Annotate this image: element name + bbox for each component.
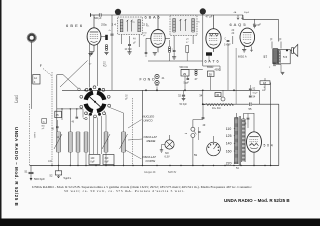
contact circle right bbox=[82, 109, 84, 118]
arrow down at 251.5 bbox=[250, 47, 252, 52]
svg-text:5µpF∧: 5µpF∧ bbox=[64, 176, 72, 180]
ground bbox=[242, 49, 246, 51]
wire stub x112 bbox=[111, 15, 113, 26]
tube V3 diode plates bbox=[210, 34, 219, 37]
power transformer T4 primary bbox=[234, 118, 236, 165]
svg-text:47 µF: 47 µF bbox=[206, 14, 213, 18]
resistor R11 box 30 bbox=[208, 71, 215, 77]
wire x203 lower bbox=[202, 90, 204, 104]
wire L1 bottom lead bbox=[58, 152, 60, 166]
svg-text:220: 220 bbox=[226, 161, 232, 165]
trimmer cap 46 bbox=[61, 109, 63, 120]
svg-text:F·: F· bbox=[34, 81, 36, 84]
contact circle left bbox=[78, 88, 81, 91]
power transformer T4 secondary bbox=[241, 119, 243, 162]
dashed gang line right bbox=[132, 98, 134, 165]
ground bbox=[90, 51, 94, 53]
capacitor C8 under T2 bbox=[173, 50, 176, 52]
leader nucleo bbox=[128, 120, 142, 129]
wire antenna lead bbox=[31, 42, 33, 84]
svg-text:500 KpF: 500 KpF bbox=[34, 177, 45, 181]
svg-text:5µpF: 5µpF bbox=[184, 82, 190, 85]
svg-text:110: 110 bbox=[226, 127, 232, 131]
wires F leads bbox=[271, 42, 273, 49]
wire T3 primary bottom lead with cap bbox=[273, 63, 275, 64]
svg-text:F: F bbox=[40, 64, 42, 68]
ground bbox=[172, 56, 176, 58]
wire vertical feed to output transformer bbox=[277, 19, 279, 41]
svg-text:140: 140 bbox=[226, 142, 232, 146]
wire AVC bus bbox=[62, 89, 260, 91]
coil L5 bbox=[103, 132, 105, 152]
svg-text:50 KpF: 50 KpF bbox=[180, 104, 188, 106]
wire V2 top lead bbox=[157, 15, 159, 29]
svg-text:“c”: “c” bbox=[89, 62, 92, 66]
FONO jack lower bbox=[155, 81, 159, 85]
ground bbox=[153, 52, 157, 54]
leader corte bbox=[126, 150, 142, 159]
power transformer T4 core bbox=[238, 116, 240, 165]
trimmer box 4s left bbox=[42, 119, 47, 124]
wire main bottom bus bbox=[30, 165, 279, 167]
tube V3 6AT6 plate bbox=[209, 32, 218, 34]
wire V2 left grid lead bbox=[146, 37, 151, 39]
wire V1 grid leads to switch bbox=[89, 44, 91, 88]
IF transformer T2 dashed can bbox=[170, 15, 197, 35]
tube V1 6BE6 plate bbox=[90, 31, 99, 33]
wire feed left bbox=[57, 74, 63, 76]
tube V2 6BA6 envelope bbox=[151, 30, 165, 48]
wires switch bottom drops bbox=[89, 116, 91, 154]
wire V1 plate lead bbox=[101, 36, 106, 38]
svg-text:5 6: 5 6 bbox=[283, 55, 288, 59]
svg-text:CORTE: CORTE bbox=[146, 159, 156, 163]
arrows 4A 50uF hanging from bus bbox=[237, 15, 244, 20]
wire V2 plate lead bbox=[165, 37, 170, 39]
svg-text:5 X 4: 5 X 4 bbox=[264, 144, 273, 148]
tube V4 6AQ5 envelope bbox=[240, 28, 255, 46]
padder box 140KpF bbox=[89, 155, 100, 165]
junction dot on bus at x118 bbox=[115, 9, 121, 15]
wires T2 down leads bbox=[173, 36, 175, 51]
capacitor C13 32 bbox=[183, 90, 185, 94]
svg-text:KpF: KpF bbox=[105, 162, 110, 164]
wire vertical to V4 grid cap bbox=[254, 19, 256, 24]
tube V2 6BA6 cathode bbox=[154, 43, 161, 44]
capacitor C6 V2 grid bbox=[145, 52, 148, 54]
wire V4 area down bbox=[235, 48, 237, 104]
trimmer T1 arrows bbox=[126, 20, 128, 32]
tube V2 6BA6 grids bbox=[154, 35, 163, 37]
wire antenna to coil bank bbox=[31, 84, 33, 109]
band switch S1 ring bbox=[97, 104, 104, 111]
wire V1 cathode lead bbox=[93, 45, 95, 51]
wire top B+ bus bbox=[91, 14, 99, 16]
coil L1 bbox=[56, 132, 58, 152]
trimmer box 45 bbox=[55, 111, 62, 118]
svg-text:F: F bbox=[280, 38, 282, 42]
capacitor C4 under T1 bbox=[129, 36, 131, 44]
capacitor C17 55 bbox=[249, 103, 251, 106]
output transformer T3 primary 57 bbox=[272, 49, 274, 64]
tube V1 6BE6 cathode bbox=[91, 41, 98, 42]
adjust arrow 3 bbox=[120, 134, 128, 149]
svg-text:400Ω: 400Ω bbox=[215, 69, 221, 72]
svg-text:6 A T 6: 6 A T 6 bbox=[205, 60, 219, 64]
wires T1 down leads bbox=[121, 35, 123, 45]
resistor R15 zigzag bbox=[203, 104, 205, 106]
svg-text:6 B E 6: 6 B E 6 bbox=[66, 23, 83, 28]
wire mains top line bbox=[203, 103, 249, 105]
svg-text:10+ KΩ: 10+ KΩ bbox=[212, 107, 221, 110]
chassis line under V2 V3 bbox=[148, 60, 202, 62]
svg-text:50µF: 50µF bbox=[253, 93, 259, 95]
adjust arrow 2 bbox=[102, 134, 110, 149]
svg-text:UNDA RADIO – Mod. R 52/25 B: UNDA RADIO – Mod. R 52/25 B bbox=[224, 198, 290, 203]
svg-text:600 µF: 600 µF bbox=[94, 17, 102, 20]
speaker cone bbox=[294, 44, 298, 56]
wire speaker link bbox=[290, 49, 291, 51]
coil L3 bbox=[75, 132, 77, 152]
capacitor C2 screen bypass bbox=[111, 26, 113, 34]
wires lamp leads bbox=[169, 135, 171, 140]
resistor R14 box 36 bbox=[215, 93, 221, 97]
wire C10 down to AVC bbox=[227, 43, 229, 90]
svg-text:R.AER.: R.AER. bbox=[33, 132, 36, 139]
resistor 18 box bbox=[260, 81, 270, 85]
wire V3 top lead bbox=[213, 15, 215, 29]
resistor R6 under T2 bbox=[186, 46, 189, 53]
capacitor 58 bbox=[247, 114, 249, 118]
fuse 52 bbox=[58, 166, 60, 171]
wire right vertical x278.8 bbox=[278, 104, 280, 165]
wires T4 top leads bbox=[235, 113, 237, 118]
resistor R5 V2 cathode loops bbox=[168, 47, 170, 49]
FONO jack upper bbox=[155, 74, 159, 78]
tube V5 5X4 envelope bbox=[247, 132, 262, 152]
dashed gang line mid bbox=[51, 72, 53, 165]
svg-text:4A: 4A bbox=[133, 38, 136, 41]
svg-text:[367]: [367] bbox=[14, 95, 18, 103]
svg-text:KΩ: KΩ bbox=[103, 65, 107, 68]
capacitor C15 52 bbox=[249, 88, 252, 90]
svg-text:10 KpF: 10 KpF bbox=[125, 49, 133, 51]
power switch contacts bbox=[191, 127, 195, 131]
wire diagonal to contact bbox=[63, 75, 78, 89]
band switch S1 contacts bbox=[108, 104, 111, 107]
tube V5 5X4 grids bbox=[250, 138, 259, 140]
svg-text:250µ: 250µ bbox=[101, 22, 107, 26]
svg-text:F O N O: F O N O bbox=[140, 78, 155, 82]
svg-text:29: 29 bbox=[183, 72, 187, 76]
wire V5 bottom lead bbox=[253, 152, 255, 165]
resistor R10 loops 47 bbox=[195, 70, 197, 72]
wire horizontal coil feed bbox=[57, 108, 83, 110]
capacitor C16 54 bbox=[249, 95, 252, 97]
capacitor 49b marks bbox=[198, 131, 200, 133]
padder box 310KpF bbox=[103, 155, 114, 165]
svg-text:F: F bbox=[271, 38, 273, 42]
scan bottom black band bbox=[0, 219, 320, 227]
antenna coupling box bbox=[33, 75, 40, 85]
dashed gang line left bbox=[29, 104, 31, 165]
svg-text:~: ~ bbox=[185, 131, 188, 136]
svg-text:Gruppo 4F.: Gruppo 4F. bbox=[144, 171, 156, 174]
tube V3 6AT6 grids bbox=[209, 35, 218, 37]
IF transformer T1 dashed can bbox=[118, 17, 143, 35]
svg-text:160: 160 bbox=[226, 149, 232, 153]
coil T1 primary bbox=[119, 20, 121, 33]
coil L4 bbox=[83, 132, 85, 152]
dashed band switch link bbox=[43, 69, 52, 77]
svg-text:6 A Q 5: 6 A Q 5 bbox=[230, 22, 247, 27]
wires switch leads bbox=[192, 120, 194, 128]
junction dot on bus at x203 bbox=[200, 8, 206, 14]
svg-text:125: 125 bbox=[226, 134, 232, 138]
tube V3 6AT6 cathode bbox=[210, 44, 218, 45]
coil L6 bbox=[121, 132, 123, 152]
speaker magnet bbox=[292, 48, 294, 54]
tube V5 filament marks bbox=[250, 143, 259, 146]
wire FONO stub bbox=[156, 87, 158, 91]
wire V2 cathode lead bbox=[157, 47, 159, 52]
capacitor C1 antenna series bbox=[90, 13, 92, 17]
wire long vertical x56.8 bbox=[56, 75, 58, 132]
svg-text:KpF: KpF bbox=[91, 162, 96, 164]
svg-text:UNICO: UNICO bbox=[144, 119, 154, 123]
band switch S1 wiper bbox=[90, 97, 101, 107]
wire B+ branch to output stage bbox=[243, 18, 278, 20]
coil L2 bbox=[67, 132, 69, 152]
ground bbox=[104, 51, 108, 53]
wire L4 bottom lead bbox=[85, 152, 87, 166]
tube V4 6AQ5 plate bbox=[243, 32, 252, 34]
trimmer T2 arrows bbox=[180, 19, 182, 31]
wire x112 down to switch area bbox=[111, 44, 113, 90]
wire box18 top stub bbox=[264, 78, 266, 81]
capacitor 49 bbox=[202, 117, 205, 119]
antenna terminal bbox=[29, 35, 35, 41]
adjust arrow 1 bbox=[54, 134, 62, 149]
svg-text:50µF: 50µF bbox=[244, 12, 250, 14]
wire L3 bottom lead bbox=[77, 152, 79, 166]
wire R5 leads bbox=[169, 40, 171, 46]
wires switch slants bbox=[86, 113, 90, 117]
resistor R3 screen loops bbox=[105, 45, 107, 47]
wire V3 dot lead down bbox=[202, 15, 204, 67]
pilot lamp bbox=[165, 140, 174, 149]
svg-text:500 KΩ: 500 KΩ bbox=[180, 66, 189, 69]
svg-text:600Ω A: 600Ω A bbox=[238, 55, 247, 59]
junction dot T3 bbox=[286, 49, 288, 51]
wire AVC to mains x259.5 bbox=[259, 90, 261, 104]
resistor R2 dark block bbox=[105, 35, 108, 40]
trimmer cap 46 left bbox=[56, 120, 58, 126]
svg-text:46 µpF: 46 µpF bbox=[253, 22, 262, 26]
wire V1 grid top lead bbox=[93, 15, 95, 28]
ground bbox=[160, 149, 163, 151]
svg-text:6,3V: 6,3V bbox=[165, 156, 170, 159]
wire V4 cathode bbox=[243, 46, 245, 50]
wire network top bbox=[203, 65, 214, 67]
ground bbox=[182, 97, 186, 99]
wires network verticals bbox=[184, 76, 186, 90]
capacitor C10 coupling bbox=[232, 36, 234, 44]
svg-text:2 4: 2 4 bbox=[112, 22, 117, 26]
svg-text:NO: NO bbox=[165, 152, 169, 155]
tube V5 5X4 plate bbox=[249, 136, 258, 138]
wire L6 bottom lead bbox=[123, 152, 125, 166]
wire long diagonal to tube V1 bbox=[60, 61, 88, 88]
resistor R9 box 29 bbox=[181, 70, 189, 77]
tube V1 6BE6 envelope bbox=[87, 28, 101, 45]
svg-text:UNDA RADIO – Mod. R 52/25 B: UNDA RADIO – Mod. R 52/25 B bbox=[14, 127, 19, 206]
svg-text:100: 100 bbox=[48, 160, 53, 163]
coil T2 primary bbox=[172, 19, 174, 33]
capacitor 51 with arrow bbox=[30, 166, 32, 172]
coil T2 secondary bbox=[191, 19, 193, 33]
ground bbox=[127, 51, 131, 53]
tube V4 6AQ5 cathode bbox=[244, 42, 251, 43]
svg-text:30: 30 bbox=[209, 73, 213, 77]
svg-text:52/8 3V: 52/8 3V bbox=[168, 171, 177, 174]
tube V4 6AQ5 grids bbox=[243, 34, 252, 36]
wires to rectifier bbox=[247, 120, 249, 128]
tube V3 6AT6 envelope bbox=[206, 29, 221, 49]
tube V5 5X4 cathode bbox=[250, 148, 258, 149]
resistor dark block V3 cathode bbox=[206, 52, 212, 55]
coil T1 secondary bbox=[137, 20, 139, 33]
tube V1 6BE6 grids bbox=[90, 33, 98, 35]
svg-text:1A: 1A bbox=[34, 77, 37, 80]
svg-text:5 KpF: 5 KpF bbox=[224, 44, 231, 47]
heavy vertical x142.4 bbox=[141, 90, 143, 165]
wire right vertical x270.6 bbox=[269, 82, 272, 84]
svg-text:57: 57 bbox=[264, 55, 268, 59]
leader medie bbox=[128, 139, 143, 140]
ground bbox=[281, 71, 285, 73]
wire V3 cathode lead bbox=[213, 48, 215, 52]
tube V2 6BA6 plate bbox=[154, 33, 163, 35]
voltage selector bbox=[207, 142, 221, 156]
ground bbox=[88, 53, 92, 55]
wire L2 bottom lead bbox=[69, 152, 71, 166]
capacitor 36 disc bbox=[221, 97, 225, 101]
svg-text:MEDIE: MEDIE bbox=[147, 139, 156, 143]
output transformer T3 secondary box 56 bbox=[278, 50, 290, 64]
capacitor C11 5KpF bbox=[187, 76, 189, 78]
band switch S1 pads bbox=[98, 113, 101, 116]
scan left edge strip bbox=[0, 0, 2, 226]
wire L5 bottom lead bbox=[105, 152, 107, 166]
svg-text:KΩ: KΩ bbox=[262, 90, 265, 92]
wire selector stub bbox=[213, 136, 215, 142]
